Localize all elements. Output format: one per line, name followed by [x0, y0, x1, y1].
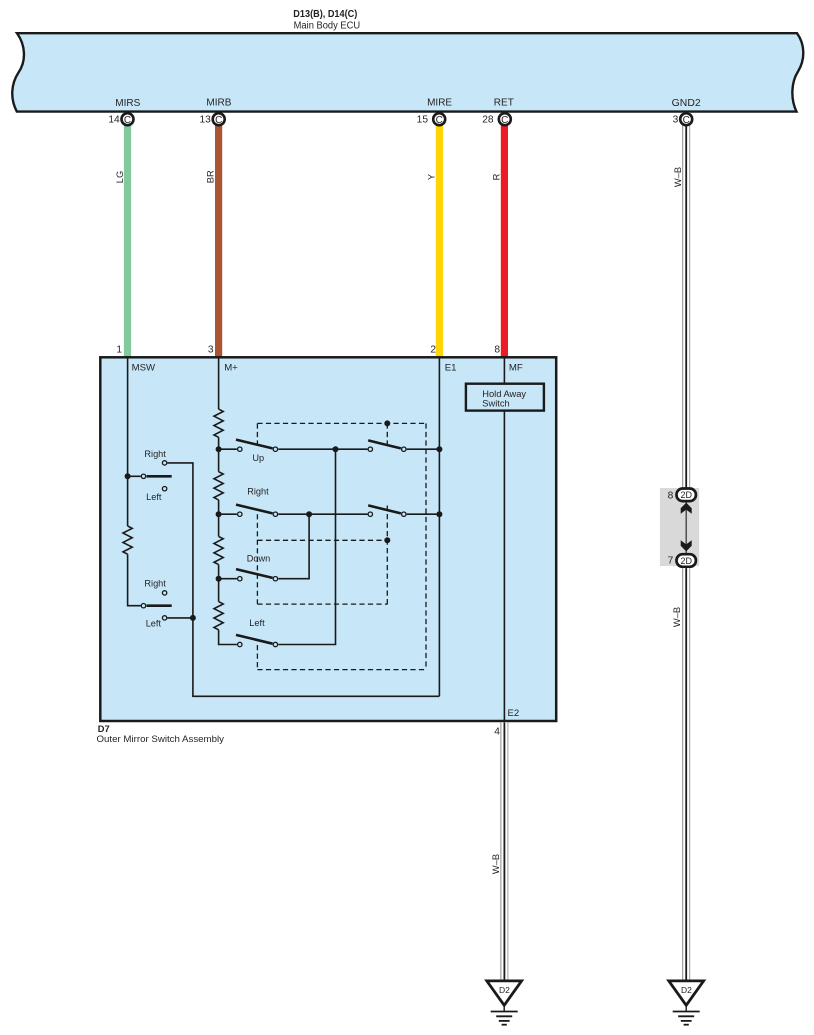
- svg-text:7: 7: [668, 556, 674, 567]
- svg-text:Outer Mirror Switch Assembly: Outer Mirror Switch Assembly: [97, 734, 225, 744]
- svg-text:R: R: [491, 173, 501, 180]
- svg-text:14: 14: [108, 115, 120, 126]
- svg-text:W–B: W–B: [673, 167, 683, 187]
- svg-text:MSW: MSW: [132, 363, 156, 374]
- svg-text:Right: Right: [144, 449, 166, 459]
- svg-text:8: 8: [668, 491, 674, 502]
- svg-text:LG: LG: [115, 171, 125, 183]
- svg-text:C: C: [501, 115, 508, 126]
- svg-text:C: C: [215, 115, 222, 126]
- svg-text:Left: Left: [249, 618, 265, 628]
- svg-text:Left: Left: [146, 492, 162, 502]
- svg-text:Main Body ECU: Main Body ECU: [294, 20, 361, 31]
- svg-text:28: 28: [482, 115, 494, 126]
- svg-text:MIRS: MIRS: [115, 98, 140, 109]
- svg-text:3: 3: [673, 115, 679, 126]
- svg-text:W–B: W–B: [672, 607, 682, 627]
- svg-text:C: C: [436, 115, 443, 126]
- svg-text:MF: MF: [509, 363, 523, 374]
- svg-text:W–B: W–B: [491, 854, 501, 874]
- svg-text:1: 1: [116, 345, 122, 356]
- svg-text:2D: 2D: [680, 556, 692, 566]
- svg-text:2: 2: [430, 345, 436, 356]
- svg-text:E2: E2: [508, 708, 520, 719]
- svg-text:15: 15: [417, 115, 429, 126]
- svg-text:2D: 2D: [680, 490, 692, 500]
- svg-text:Right: Right: [144, 579, 166, 589]
- svg-text:3: 3: [208, 345, 214, 356]
- svg-text:D2: D2: [499, 985, 510, 995]
- svg-text:Switch: Switch: [482, 398, 509, 408]
- svg-text:MIRB: MIRB: [206, 98, 231, 109]
- svg-text:M+: M+: [224, 363, 238, 374]
- svg-text:MIRE: MIRE: [427, 98, 452, 109]
- svg-text:D13(B), D14(C): D13(B), D14(C): [293, 8, 357, 20]
- svg-text:Up: Up: [252, 453, 264, 463]
- svg-text:Down: Down: [247, 554, 270, 564]
- svg-text:Right: Right: [247, 487, 269, 497]
- svg-text:Y: Y: [426, 174, 436, 180]
- svg-text:13: 13: [199, 115, 211, 126]
- svg-text:D7: D7: [98, 724, 110, 734]
- svg-text:Hold Away: Hold Away: [482, 389, 526, 399]
- svg-text:E1: E1: [445, 363, 457, 374]
- svg-text:BR: BR: [205, 170, 215, 183]
- svg-text:C: C: [683, 115, 690, 126]
- svg-text:8: 8: [494, 345, 500, 356]
- svg-text:GND2: GND2: [672, 98, 701, 109]
- svg-text:Left: Left: [146, 619, 162, 629]
- svg-text:C: C: [124, 115, 131, 126]
- svg-text:RET: RET: [494, 98, 514, 109]
- svg-text:4: 4: [494, 726, 500, 737]
- svg-text:D2: D2: [681, 985, 692, 995]
